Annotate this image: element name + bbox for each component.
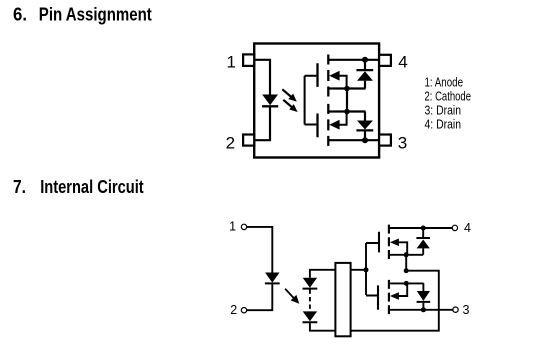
svg-text:7.: 7.: [13, 177, 26, 197]
svg-text:3: Drain: 3: Drain: [425, 103, 462, 117]
svg-text:4: 4: [398, 52, 407, 71]
svg-text:Internal Circuit: Internal Circuit: [40, 177, 144, 197]
svg-text:2: 2: [226, 133, 235, 152]
svg-text:1: 1: [229, 220, 236, 234]
svg-text:4: Drain: 4: Drain: [425, 117, 462, 131]
svg-text:Pin Assignment: Pin Assignment: [39, 4, 152, 24]
svg-text:3: 3: [398, 133, 407, 152]
svg-text:6.: 6.: [13, 4, 27, 24]
svg-text:4: 4: [464, 221, 471, 235]
svg-text:2: Cathode: 2: Cathode: [425, 89, 472, 103]
svg-text:2: 2: [230, 303, 237, 317]
svg-text:3: 3: [463, 303, 470, 317]
svg-text:1: Anode: 1: Anode: [425, 75, 464, 89]
svg-text:1: 1: [226, 52, 235, 71]
